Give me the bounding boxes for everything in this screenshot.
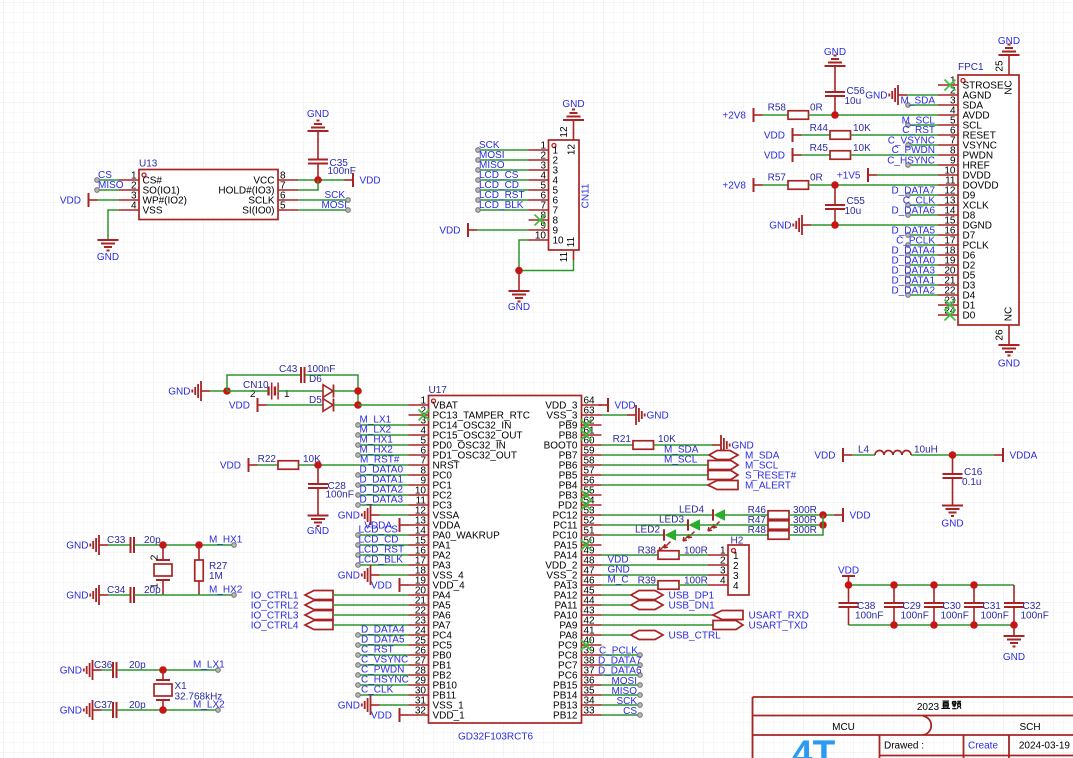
- wire SCK: [602, 704, 641, 706]
- wire ground to C36: [102, 669, 114, 671]
- svg-text:M_HX2: M_HX2: [209, 585, 243, 596]
- wire R48 to node: [789, 515, 823, 535]
- capacitor C32: [1004, 601, 1049, 622]
- wire ground to DGND: [811, 224, 938, 226]
- net label MISO: [611, 686, 637, 697]
- svg-text:R21: R21: [613, 434, 632, 445]
- svg-text:LCD_BLK: LCD_BLK: [479, 200, 524, 211]
- wire PA9 to USART_TXD: [602, 624, 714, 626]
- svg-text:GND: GND: [1003, 652, 1025, 663]
- ground: [60, 660, 102, 680]
- junction: [831, 111, 839, 119]
- wire D_DATA3: [908, 274, 938, 276]
- svg-text:GND: GND: [307, 526, 329, 537]
- unconnected wire end: [232, 543, 237, 548]
- svg-text:VDDA: VDDA: [1010, 451, 1038, 462]
- svg-text:+2V8: +2V8: [722, 111, 746, 122]
- svg-text:D0: D0: [963, 311, 976, 322]
- wire SCK: [298, 199, 348, 201]
- wire +2V8 to R57: [763, 184, 789, 186]
- svg-text:10K: 10K: [658, 434, 676, 445]
- svg-text:D_DATA3: D_DATA3: [360, 495, 404, 506]
- net label C_PWDN: [892, 145, 935, 156]
- power VDD: [838, 566, 859, 586]
- svg-text:GND: GND: [865, 91, 887, 102]
- wire cap lead: [933, 585, 935, 603]
- net label M_SDA: [901, 96, 936, 107]
- net label M_HX1: [209, 535, 243, 546]
- port flag IO_CTRL4: [251, 621, 333, 632]
- wire C_RST: [358, 654, 409, 656]
- svg-text:2: 2: [150, 554, 161, 560]
- ground: [824, 47, 846, 66]
- junction: [890, 581, 898, 589]
- net label LCD_RST: [479, 190, 525, 201]
- net label M_LX1: [360, 415, 392, 426]
- resistor R47: [748, 515, 817, 529]
- net label CS: [623, 706, 637, 717]
- wire D_DATA4: [358, 634, 409, 636]
- junction: [845, 581, 853, 589]
- ground: [66, 535, 108, 555]
- wire M_HX1: [358, 444, 409, 446]
- net label MISO: [98, 180, 124, 191]
- junction: [314, 461, 322, 469]
- net label D_DATA5: [891, 226, 935, 237]
- wire PB7: [602, 454, 710, 456]
- power VDD: [439, 223, 477, 237]
- wire R39 to H2 pin4: [679, 584, 708, 586]
- resistor R38: [638, 546, 708, 560]
- junction: [819, 511, 827, 519]
- net label MOSI: [479, 150, 505, 161]
- capacitor C29: [884, 601, 929, 622]
- wire D_DATA4: [908, 254, 938, 256]
- svg-text:M_ALERT: M_ALERT: [745, 481, 791, 492]
- unconnected wire end: [638, 693, 643, 698]
- svg-text:VDD: VDD: [360, 176, 381, 187]
- wire R38 to H2 pin1: [679, 554, 708, 556]
- resistor R39: [638, 576, 708, 590]
- wire M_SDA: [908, 104, 938, 106]
- net label M_SDA: [664, 445, 699, 456]
- net label VDD: [608, 555, 629, 566]
- port flag USART_RXD: [713, 611, 809, 622]
- wire R22 to NRST: [299, 464, 409, 466]
- unconnected wire end: [356, 643, 361, 648]
- unconnected wire end: [476, 198, 481, 203]
- unconnected wire end: [356, 533, 361, 538]
- wire C35 to node: [317, 164, 319, 181]
- diode D6: [309, 374, 334, 398]
- svg-text:R44: R44: [810, 123, 829, 134]
- svg-text:VDD: VDD: [764, 131, 785, 142]
- net label LCD_CD: [479, 180, 519, 191]
- wire LED3 to R47: [700, 524, 769, 526]
- net label C_VSYNC: [361, 655, 408, 666]
- ground: [998, 36, 1020, 55]
- svg-text:D_DATA6: D_DATA6: [891, 206, 935, 217]
- unconnected wire end: [356, 633, 361, 638]
- wire VDD to R22: [258, 464, 279, 466]
- wire PA13/VDD to H2 pin2: [602, 564, 709, 566]
- capacitor C36: [94, 660, 146, 678]
- svg-text:10: 10: [535, 231, 547, 242]
- wire node to CN10: [227, 390, 269, 392]
- wire cap lead: [933, 607, 935, 625]
- junction: [831, 181, 839, 189]
- svg-text:1M: 1M: [209, 571, 223, 582]
- capacitor C34: [107, 585, 161, 603]
- wire CN11 pin10 to ground: [519, 240, 529, 271]
- net label M_SCL: [664, 455, 698, 466]
- ground: [60, 700, 102, 720]
- svg-text:IO_CTRL4: IO_CTRL4: [251, 621, 299, 632]
- svg-text:VDD: VDD: [229, 401, 250, 412]
- led LED2: [635, 525, 676, 552]
- svg-text:VDD: VDD: [814, 451, 835, 462]
- unconnected wire end: [356, 503, 361, 508]
- wire PA11 to USB_DN1: [602, 604, 632, 606]
- unconnected wire end: [906, 273, 911, 278]
- unconnected wire end: [906, 103, 911, 108]
- no-connect X: [945, 310, 956, 321]
- unconnected wire end: [232, 593, 237, 598]
- wire C_PCLK: [602, 654, 641, 656]
- wire LCD_RST: [358, 554, 409, 556]
- unconnected wire end: [638, 683, 643, 688]
- ground: [338, 565, 380, 585]
- wire PB6: [602, 464, 709, 466]
- wire C34 to M_HX2: [135, 594, 235, 596]
- svg-text:NC: NC: [1004, 307, 1015, 321]
- svg-text:Drawed :: Drawed :: [884, 741, 924, 752]
- svg-text:4: 4: [720, 576, 726, 587]
- resistor R45: [810, 143, 871, 159]
- ground: [168, 381, 210, 401]
- svg-text:LCD_BLK: LCD_BLK: [359, 555, 404, 566]
- svg-text:CS: CS: [623, 706, 637, 717]
- svg-text:100nF: 100nF: [326, 490, 354, 501]
- svg-text:C33: C33: [107, 535, 126, 546]
- net label C_HSYNC: [887, 156, 935, 167]
- wire D6 to node: [334, 390, 359, 392]
- unconnected wire end: [906, 233, 911, 238]
- wire VSS to ground: [108, 210, 119, 240]
- svg-text:D_DATA6: D_DATA6: [598, 666, 642, 677]
- svg-text:MCU: MCU: [832, 722, 855, 733]
- net label D_DATA3: [360, 495, 404, 506]
- ground: [769, 215, 811, 235]
- wire ground to VSSA: [380, 514, 409, 516]
- ground: [1003, 636, 1025, 663]
- svg-text:VDD: VDD: [60, 196, 81, 207]
- wire VDD rail: [849, 584, 1015, 586]
- svg-text:H2: H2: [731, 536, 744, 547]
- unconnected wire end: [638, 703, 643, 708]
- svg-text:R45: R45: [810, 143, 829, 154]
- svg-text:100nF: 100nF: [901, 611, 929, 622]
- wire PB5: [602, 474, 709, 476]
- junction: [354, 387, 362, 395]
- wire M_HX2: [358, 454, 409, 456]
- wire PA14 to R38: [602, 554, 659, 556]
- unconnected wire end: [356, 543, 361, 548]
- svg-text:R57: R57: [768, 173, 787, 184]
- junction: [949, 451, 957, 459]
- wire cap lead: [1013, 585, 1015, 603]
- svg-text:C43: C43: [279, 364, 298, 375]
- wire LCD_BLK: [358, 564, 409, 566]
- net label D_DATA0: [891, 256, 935, 267]
- net label M_HX2: [209, 585, 243, 596]
- wire R45 to C_PWDN: [851, 154, 939, 156]
- chip U13: [119, 159, 298, 220]
- no-connect X: [945, 80, 956, 91]
- resistor R21: [613, 434, 676, 449]
- svg-text:+2V8: +2V8: [722, 181, 746, 192]
- capacitor C55: [825, 196, 865, 217]
- resistor R27: [195, 545, 228, 595]
- wire LCD_BLK: [478, 209, 529, 211]
- unconnected wire end: [638, 673, 643, 678]
- battery CN10: [243, 380, 290, 400]
- svg-text:11: 11: [566, 236, 577, 247]
- svg-text:GND: GND: [941, 519, 963, 530]
- power VDD: [599, 398, 636, 412]
- unconnected wire end: [476, 178, 481, 183]
- svg-text:CN10: CN10: [243, 380, 269, 391]
- wire D_DATA0: [908, 264, 938, 266]
- net label SCK: [324, 190, 345, 201]
- junction: [890, 621, 898, 629]
- svg-text:4T: 4T: [792, 733, 836, 758]
- wire ground stem: [518, 271, 520, 292]
- wire VDD to D5: [267, 404, 324, 406]
- svg-text:C36: C36: [94, 660, 113, 671]
- capacitor C16: [943, 467, 983, 488]
- svg-text:SI(IO0): SI(IO0): [242, 206, 274, 217]
- port flag M_ALERT: [708, 481, 791, 492]
- svg-text:USB_DN1: USB_DN1: [669, 601, 716, 612]
- port flag USART_TXD: [713, 621, 808, 632]
- resistor R48: [748, 525, 817, 539]
- power VDD: [764, 128, 802, 142]
- unconnected wire end: [906, 213, 911, 218]
- net label LCD_CS: [359, 525, 399, 536]
- wire C33 to M_HX1: [135, 544, 235, 546]
- connector CN11: [529, 120, 592, 262]
- wire PC11 to LED3: [602, 524, 689, 526]
- unconnected wire end: [356, 453, 361, 458]
- no-connect X: [535, 215, 546, 226]
- wire C36 to M_LX1: [117, 669, 218, 671]
- wire C28 to ground: [317, 488, 319, 516]
- svg-text:M_LX2: M_LX2: [193, 700, 225, 711]
- svg-text:M_SCL: M_SCL: [664, 455, 698, 466]
- wire R57 to DOVDD: [809, 184, 939, 186]
- wire node to C55: [834, 185, 836, 205]
- svg-text:NC: NC: [1004, 80, 1015, 94]
- ground: [562, 99, 584, 120]
- resistor R22: [258, 454, 321, 469]
- wire VSS_3 to ground: [602, 414, 628, 416]
- wire BOOT0 to R21: [602, 444, 634, 446]
- svg-text:MOSI: MOSI: [321, 200, 347, 211]
- svg-text:100nF: 100nF: [941, 611, 969, 622]
- wire M_LX2: [358, 434, 409, 436]
- net label C_PWDN: [361, 665, 404, 676]
- svg-text:4: 4: [131, 201, 137, 212]
- unconnected wire end: [476, 158, 481, 163]
- power +2V8: [722, 108, 762, 122]
- junction: [970, 581, 978, 589]
- net label LCD_CS: [479, 170, 519, 181]
- svg-text:C_PWDN: C_PWDN: [892, 145, 935, 156]
- ground: [338, 695, 380, 715]
- net label D_DATA4: [361, 625, 405, 636]
- wire HOLD# to node: [298, 180, 318, 190]
- net label M_SCL: [902, 116, 936, 127]
- wire cap lead: [893, 585, 895, 603]
- unconnected wire end: [906, 123, 911, 128]
- svg-text:10uH: 10uH: [914, 445, 938, 456]
- ground: [998, 345, 1020, 370]
- svg-text:USB_CTRL: USB_CTRL: [669, 631, 722, 642]
- net label D_DATA1: [891, 276, 935, 287]
- svg-text:100nF: 100nF: [855, 611, 883, 622]
- junction: [223, 387, 231, 395]
- wire D_DATA6: [602, 674, 641, 676]
- wire cap lead: [848, 585, 850, 603]
- no-connect X: [419, 410, 430, 421]
- svg-text:100nF: 100nF: [981, 611, 1009, 622]
- unconnected wire end: [356, 473, 361, 478]
- capacitor C33: [107, 535, 161, 553]
- unconnected wire end: [356, 693, 361, 698]
- unconnected wire end: [346, 208, 351, 213]
- wire VDD to R45: [802, 154, 831, 156]
- port flag IO_CTRL3: [251, 611, 333, 622]
- wire C16 to ground: [952, 478, 954, 506]
- svg-text:R58: R58: [768, 103, 787, 114]
- svg-text:GND: GND: [168, 387, 190, 398]
- svg-text:VDD_1: VDD_1: [433, 711, 466, 722]
- net label D_DATA2: [891, 286, 935, 297]
- svg-text:U13: U13: [139, 159, 158, 170]
- net label SCK: [479, 140, 500, 151]
- wire D_DATA0: [358, 474, 409, 476]
- capacitor C31: [964, 601, 1009, 622]
- svg-text:GND: GND: [60, 666, 82, 677]
- wire ground to C33: [108, 544, 131, 546]
- net label M_LX2: [360, 425, 392, 436]
- svg-text:C37: C37: [94, 700, 113, 711]
- wire ground to C34: [108, 594, 131, 596]
- net label C_RST: [902, 125, 935, 136]
- svg-text:C_HSYNC: C_HSYNC: [887, 156, 935, 167]
- net label CS: [98, 170, 112, 181]
- svg-text:LED2: LED2: [635, 525, 660, 536]
- wire D_DATA2: [908, 294, 938, 296]
- wire node to C16: [952, 455, 954, 474]
- wire VDD to R44: [802, 134, 831, 136]
- wire LCD_CD: [478, 189, 529, 191]
- svg-text:Create: Create: [968, 741, 998, 752]
- net label C_HSYNC: [361, 675, 409, 686]
- power VDD: [371, 708, 409, 722]
- unconnected wire end: [95, 178, 100, 183]
- wire R58 to AVDD: [809, 114, 939, 116]
- port flag M_SDA: [709, 451, 780, 462]
- wire M_SCL: [908, 124, 938, 126]
- wire LED4 to R46: [725, 514, 769, 516]
- net label D_DATA6: [598, 666, 642, 677]
- junction: [515, 267, 523, 275]
- unconnected wire end: [356, 483, 361, 488]
- wire D_DATA2: [358, 494, 409, 496]
- svg-text:GND: GND: [307, 109, 329, 120]
- no-connect X: [581, 540, 592, 551]
- port flag USB_DP1: [631, 591, 715, 602]
- wire C56 to node: [834, 96, 836, 115]
- wire D_DATA1: [908, 284, 938, 286]
- net label M_HX1: [360, 435, 394, 446]
- svg-text:GND: GND: [60, 706, 82, 717]
- svg-text:VDD: VDD: [220, 461, 241, 472]
- wire +1V5 to DVDD: [877, 174, 938, 176]
- net label D_DATA6: [891, 206, 935, 217]
- power VDD: [371, 578, 409, 592]
- net label LCD_BLK: [479, 200, 524, 211]
- svg-text:100nF: 100nF: [1021, 611, 1049, 622]
- ground: [338, 505, 380, 525]
- net label D_DATA4: [891, 246, 935, 257]
- svg-text:25: 25: [995, 60, 1006, 72]
- junction: [819, 521, 827, 529]
- svg-text:0R: 0R: [810, 103, 823, 114]
- wire M_C to R39: [602, 584, 659, 586]
- wire ground to VSS_4: [380, 574, 409, 576]
- svg-text:GND: GND: [824, 47, 846, 58]
- ground: [97, 240, 119, 263]
- wire C55 to node: [834, 209, 836, 225]
- svg-text:VDD: VDD: [850, 511, 871, 522]
- wire LED2 to R48: [676, 534, 769, 536]
- power VDD: [60, 193, 98, 207]
- wire CS: [97, 179, 119, 181]
- wire ground to VSS_1: [380, 704, 409, 706]
- svg-text:GD32F103RCT6: GD32F103RCT6: [458, 732, 533, 743]
- wire node to C28: [317, 465, 319, 484]
- svg-text:SCH: SCH: [1019, 722, 1040, 733]
- svg-text:GND: GND: [998, 36, 1020, 47]
- net label C_RST: [361, 645, 394, 656]
- svg-text:GND: GND: [97, 252, 119, 263]
- unconnected wire end: [216, 668, 221, 673]
- wire D_DATA7: [602, 664, 641, 666]
- svg-text:VDD: VDD: [764, 151, 785, 162]
- power +1V5: [837, 168, 877, 182]
- wire cap lead: [893, 607, 895, 625]
- svg-text:GND: GND: [508, 302, 530, 313]
- net label D_DATA7: [598, 656, 642, 667]
- wire ground to node: [210, 390, 227, 392]
- unconnected wire end: [356, 443, 361, 448]
- wire PA10 to USART_RXD: [602, 614, 714, 616]
- svg-text:LED3: LED3: [659, 515, 684, 526]
- led LED3: [659, 515, 700, 542]
